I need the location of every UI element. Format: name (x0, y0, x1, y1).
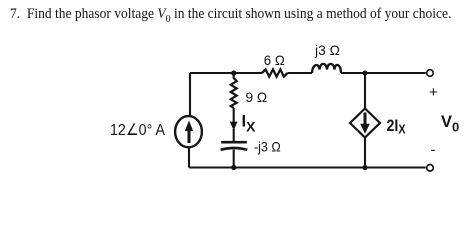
terminal bottom-right (427, 165, 434, 172)
current arrow Ix (230, 108, 238, 131)
wire capacitor to bottom rail (233, 150, 235, 168)
svg-text:12∠0° A: 12∠0° A (110, 122, 165, 139)
node junction top-right (362, 70, 367, 75)
wire top rail left segment (190, 72, 262, 74)
wire left vertical lower (188, 147, 190, 167)
svg-text:+: + (429, 84, 438, 101)
capacitor -j3Ω (221, 142, 248, 150)
wire bottom rail (189, 166, 426, 168)
terminal top-right (427, 70, 434, 77)
wire top rail right segment (341, 72, 426, 74)
svg-text:-: - (431, 142, 436, 159)
node junction top-left (231, 70, 236, 75)
dependent current source 2Ix (350, 109, 380, 138)
svg-text:IX: IX (242, 113, 257, 135)
svg-text:-j3 Ω: -j3 Ω (254, 138, 281, 154)
node junction bottom-left (231, 165, 236, 170)
svg-text:V0: V0 (441, 113, 459, 135)
wire arrow to capacitor (233, 129, 235, 141)
resistor 6Ω (262, 69, 288, 76)
svg-text:6 Ω: 6 Ω (264, 52, 285, 68)
svg-text:2IX: 2IX (387, 117, 407, 137)
problem statement text (10, 6, 451, 25)
inductor j3Ω (312, 64, 341, 73)
wire right vertical upper (364, 73, 366, 109)
wire left vertical upper (189, 73, 191, 117)
current source 12∠0° A (175, 116, 202, 147)
node junction bottom-right (362, 165, 367, 170)
resistor 9Ω (231, 73, 237, 108)
wire right vertical lower (364, 138, 366, 168)
wire top rail middle segment (288, 72, 312, 74)
svg-text:j3 Ω: j3 Ω (314, 42, 340, 58)
svg-text:9 Ω: 9 Ω (246, 89, 268, 105)
